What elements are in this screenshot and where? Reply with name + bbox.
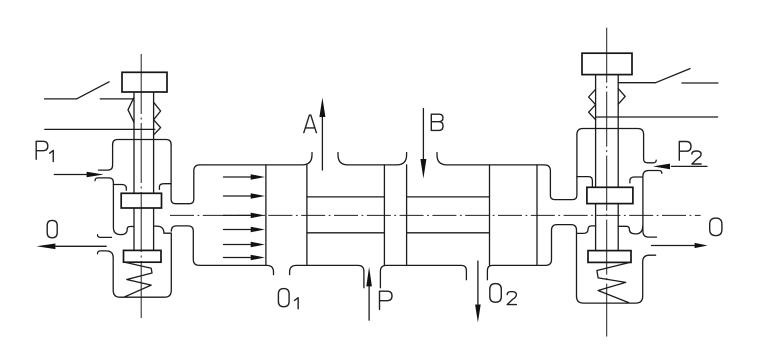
port P1 arrow bbox=[54, 174, 87, 176]
label P1 bbox=[36, 141, 48, 159]
right pilot stem upper bbox=[596, 75, 619, 188]
main valve bottom edge right segment, neck to right pilot lower bbox=[487, 225, 576, 297]
port B arrow bbox=[422, 109, 424, 161]
left pilot spring bbox=[124, 262, 152, 297]
left pilot stem upper bbox=[134, 92, 154, 193]
spool shaft lines bbox=[307, 197, 490, 233]
main valve bottom edge segment O1-P bbox=[290, 265, 364, 287]
right thread chevron right bbox=[618, 89, 625, 105]
label O (left) bbox=[47, 220, 57, 237]
left lower bell right (stem to edge) bbox=[154, 226, 172, 233]
right pilot body top edge bbox=[577, 129, 644, 135]
left pilot right edge upper + U-passage to main valve bbox=[171, 145, 200, 204]
port P2 lower lip and right edge mid bbox=[643, 171, 662, 238]
wire lower right bbox=[596, 116, 718, 118]
right pilot right edge + port P2 upper lip bbox=[644, 135, 657, 163]
right pilot stem between lands bbox=[596, 204, 619, 251]
right thread chevrons left bbox=[589, 89, 596, 119]
left pilot stem between lands bbox=[134, 208, 154, 250]
port O2 arrow bbox=[477, 261, 479, 304]
right lower bell left (stem to edge) bbox=[577, 226, 596, 234]
main valve top edge right segment with port B right lip, neck to right pilot bbox=[437, 135, 577, 200]
port P2 arrow bbox=[672, 165, 708, 167]
spool land L3 faces bbox=[490, 165, 538, 266]
left pilot upper land bbox=[121, 193, 161, 208]
left pilot body left edge + port P1 upper lip bbox=[99, 145, 113, 171]
left pilot lower land bbox=[124, 250, 162, 262]
main valve bottom edge segment P-O2 bbox=[380, 265, 466, 287]
label O (right) bbox=[710, 218, 722, 236]
port O right lower lip, right edge lower, bottom edge bbox=[577, 255, 656, 303]
switch S2 right lead wire bbox=[682, 82, 718, 84]
port O upper lip bbox=[98, 235, 112, 238]
wire lower left bbox=[45, 128, 155, 130]
horizontal main centerline bbox=[170, 214, 701, 216]
spool land L2 faces bbox=[384, 165, 406, 266]
left thread chevrons right bbox=[154, 102, 161, 135]
label B bbox=[431, 114, 443, 130]
left pilot vertical centerline bbox=[140, 54, 142, 318]
right lower U-bell bbox=[618, 226, 643, 234]
port P1 lower lip and left edge mid bbox=[95, 178, 134, 235]
right upper seat left bbox=[577, 177, 593, 187]
port O right arrow bbox=[652, 245, 698, 247]
label P2 bbox=[679, 142, 691, 161]
main valve bottom edge left segment with O1 left lip bbox=[199, 265, 273, 274]
port O left arrow bbox=[56, 245, 106, 247]
label O1 bbox=[278, 289, 289, 307]
switch S1 blade bbox=[77, 82, 110, 99]
port P arrow bbox=[368, 286, 370, 320]
right pilot spring bbox=[597, 262, 630, 302]
right pilot vertical centerline bbox=[606, 28, 608, 337]
right pilot lower land bbox=[588, 251, 631, 263]
left pilot cap bbox=[122, 72, 167, 92]
right pilot upper land bbox=[587, 187, 633, 203]
label O2 bbox=[490, 284, 502, 303]
right pilot cap bbox=[582, 53, 632, 74]
flow arrows bbox=[224, 174, 265, 260]
right upper seat right bbox=[630, 177, 643, 183]
main valve top edge middle segment (A-B) with lips bbox=[338, 153, 407, 165]
label A bbox=[304, 115, 317, 133]
port A arrow bbox=[321, 116, 323, 170]
switch S1 right lead wire to stem bbox=[100, 98, 134, 100]
left pilot body top edge bbox=[113, 140, 172, 145]
spool land L1 faces bbox=[266, 165, 307, 266]
left thread chevron left bbox=[128, 97, 134, 122]
main valve top edge left segment with port A left lip bbox=[200, 153, 312, 165]
left upper seat left bbox=[113, 185, 126, 191]
label P (bottom) bbox=[380, 291, 393, 309]
port O lower lip, left edge lower, bottom edge, right edge lower bbox=[98, 233, 172, 297]
left upper seat right bbox=[159, 184, 171, 190]
switch S1 left lead wire bbox=[45, 98, 77, 100]
switch S2 blade bbox=[656, 69, 690, 83]
switch S2 lead wire from stem bbox=[618, 82, 655, 84]
left lower tongue bbox=[171, 226, 199, 266]
